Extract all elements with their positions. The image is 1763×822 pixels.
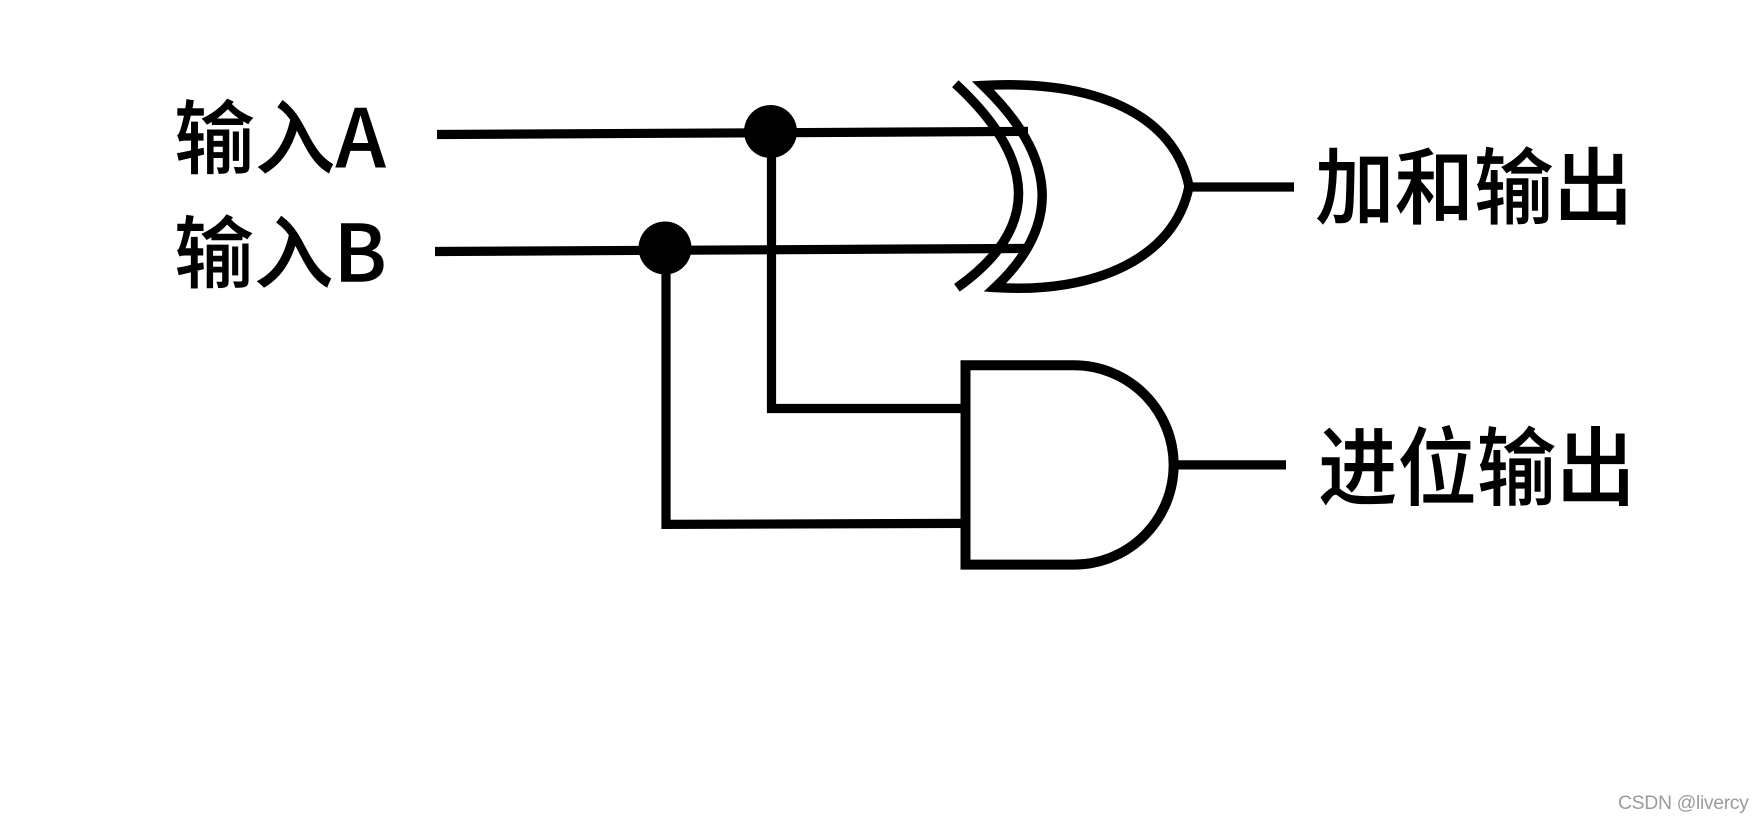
XOR gate U1 input-side arc [955, 84, 1018, 288]
wire XOR output to 加和输出 [1190, 182, 1294, 191]
wire node B to AND gate bottom input (L-shape) [666, 249, 966, 525]
wire input A horizontal [437, 131, 1028, 134]
wire node A to AND gate top input (L-shape) [772, 132, 967, 409]
svg-text:CSDN @livercy: CSDN @livercy [1618, 792, 1749, 814]
label 输入A [177, 99, 386, 175]
junction node on input B [639, 222, 692, 275]
label 进位输出 [1320, 425, 1627, 506]
label 加和输出 [1317, 146, 1626, 225]
label 输入B [177, 214, 384, 288]
junction node on input A [744, 105, 797, 158]
XOR gate U1 body [983, 85, 1189, 288]
AND gate U2 body [966, 365, 1174, 564]
wire AND output to 进位输出 [1173, 460, 1286, 469]
wire input B horizontal [435, 248, 1029, 251]
